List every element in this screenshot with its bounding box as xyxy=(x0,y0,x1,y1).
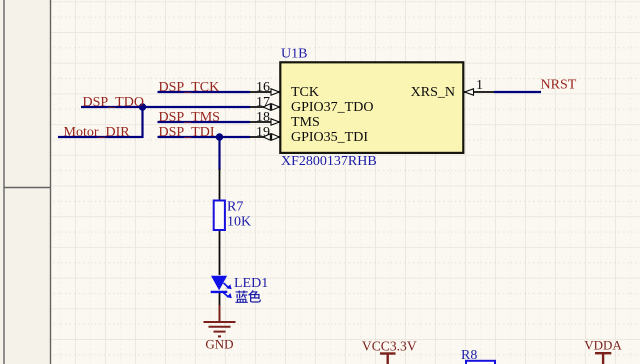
svg-text:TMS: TMS xyxy=(291,115,320,130)
svg-text:NRST: NRST xyxy=(541,78,577,93)
svg-text:16: 16 xyxy=(256,80,270,95)
svg-text:XRS_N: XRS_N xyxy=(411,85,455,100)
svg-text:TCK: TCK xyxy=(291,85,319,100)
svg-text:U1B: U1B xyxy=(281,47,307,62)
svg-text:Motor_DIR: Motor_DIR xyxy=(64,125,131,140)
svg-text:R8: R8 xyxy=(461,348,477,363)
svg-text:VCC3.3V: VCC3.3V xyxy=(362,338,417,353)
svg-text:VDDA: VDDA xyxy=(584,338,622,353)
svg-text:17: 17 xyxy=(256,95,270,110)
svg-text:19: 19 xyxy=(256,125,270,140)
svg-text:18: 18 xyxy=(256,110,270,125)
svg-text:DSP_TCK: DSP_TCK xyxy=(159,80,220,95)
svg-text:DSP_TMS: DSP_TMS xyxy=(159,110,220,125)
svg-text:10K: 10K xyxy=(227,215,251,230)
svg-text:GND: GND xyxy=(205,337,233,352)
svg-text:R7: R7 xyxy=(227,200,243,215)
svg-text:LED1: LED1 xyxy=(234,276,268,291)
svg-text:DSP_TDO: DSP_TDO xyxy=(83,95,144,110)
svg-text:GPIO35_TDI: GPIO35_TDI xyxy=(291,130,368,145)
svg-text:GPIO37_TDO: GPIO37_TDO xyxy=(291,100,373,115)
svg-text:1: 1 xyxy=(476,78,483,93)
svg-text:XF2800137RHB: XF2800137RHB xyxy=(281,154,377,169)
svg-text:DSP_TDI: DSP_TDI xyxy=(159,125,215,140)
